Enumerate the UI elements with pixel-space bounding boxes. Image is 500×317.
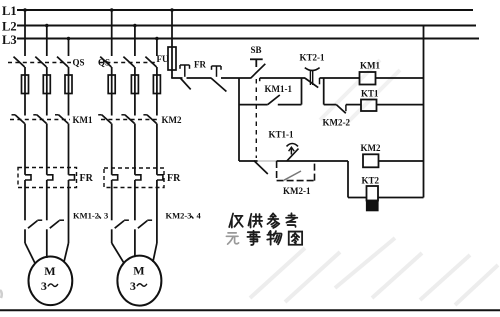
wire KT2 row left: [348, 197, 367, 199]
svg-text:FR: FR: [80, 173, 94, 184]
wire branch1 phase 1 to motor: [24, 229, 26, 243]
switch QS blade phase 1 (branch1): [14, 57, 25, 67]
wire L3 bus: [17, 38, 479, 40]
thermal relay FR box (branch1): [18, 168, 77, 188]
wire branch2 phase 1 to motor: [111, 229, 113, 243]
time contact KT1-1 delay arc+arrow: [287, 144, 299, 147]
contactor main contact phase 1 (KM1): [12, 114, 16, 116]
thermal relay FR heater phase 1 (branch1): [25, 175, 31, 180]
wire KM1-1 row right: [278, 104, 302, 106]
svg-text:L2: L2: [2, 20, 17, 34]
wire branch2 phase 1 to FR: [111, 124, 113, 175]
fuse FU phase 1 (branch1): [22, 75, 29, 94]
pushbutton SB actuator: [250, 58, 263, 60]
wire KT1 coil to rail: [377, 104, 424, 106]
contactor main contact phase 3 (KM2): [143, 114, 147, 116]
wire branch2 phase 2 to FR: [134, 124, 136, 175]
coil KT2 delay block: [367, 201, 379, 211]
fuse FU phase 3 (branch2): [153, 75, 160, 94]
wire main row segment 1: [171, 77, 182, 79]
bottom border line: [0, 309, 500, 311]
wire KM1 coil to rail: [376, 77, 424, 79]
time contact KT2-1 fixed tick: [319, 78, 321, 84]
wire branch1 phase 2 to motor: [46, 229, 48, 243]
thermal relay FR heater phase 2 (branch1): [47, 175, 53, 180]
svg-text:KM2-2: KM2-2: [323, 118, 351, 128]
contact KM2-2 fixed tick: [345, 105, 347, 112]
wire branch1 phase 2 below FR: [46, 180, 48, 220]
wire L1 bus: [17, 9, 473, 11]
svg-text:SB: SB: [251, 45, 262, 55]
fuse FU phase 3 (branch1): [65, 75, 72, 94]
contact KM2-1 bypass left leg: [276, 161, 278, 181]
switch QS blade phase 3 (branch1): [57, 57, 68, 67]
svg-text:KT1-1: KT1-1: [269, 130, 295, 140]
junction branch2 phase 1 tap: [110, 8, 114, 12]
svg-text:L3: L3: [2, 33, 17, 47]
svg-text:KM1-1: KM1-1: [265, 84, 293, 94]
junction branch1 phase 1 tap: [23, 8, 27, 12]
switch QS linkage (branch2): [99, 62, 158, 64]
wire main row segment 2: [187, 77, 212, 79]
wire branch1 phase 1 drop: [24, 10, 26, 56]
coil KT1: [361, 100, 377, 112]
wire branch2 motor leads: [112, 243, 125, 263]
contact KM1-1 blade (NO): [268, 95, 280, 105]
wire branch2 phase 2 to motor: [134, 229, 136, 243]
switch QS blade phase 2 (branch1): [35, 57, 46, 67]
wire branch1 phase 1 to fuse: [24, 67, 26, 116]
wire row3 faint gap segment: [258, 160, 277, 162]
wire branch2 phase 3 to fuse: [156, 67, 158, 116]
wire KM1-1 row left: [239, 104, 268, 106]
wire main row segment 4: [260, 77, 305, 79]
wire branch1 phase 1 to FR: [24, 124, 26, 175]
wire L2 bus: [17, 25, 476, 27]
wire branch1 phase 1 below FR: [24, 180, 26, 220]
coil KM1: [360, 72, 376, 85]
wire branch1 phase 3 to fuse: [68, 67, 70, 116]
svg-text:FU: FU: [157, 54, 169, 64]
contact KM2-2 blade (NC): [336, 105, 346, 114]
fuse FU phase 1 (branch2): [108, 75, 115, 94]
wire branch1 phase 3 below FR: [68, 180, 70, 243]
contact KM2-3 4 phase 2: [138, 221, 147, 229]
thermal contact FR2 (NC): [212, 65, 222, 67]
annotation text line 2 (wu shi wu tu): [226, 233, 238, 244]
small edge mark: [0, 290, 2, 298]
coil KM2: [363, 154, 379, 167]
fuse FU phase 2 (branch2): [131, 75, 138, 94]
contactor main contact phase 1 (KM2): [98, 114, 102, 116]
watermark (faint): [250, 60, 498, 305]
wire row3 main: [277, 160, 348, 162]
motor M (branch1): [29, 257, 73, 306]
svg-text:KM2-3: KM2-3: [166, 211, 192, 221]
wire branch2 phase 2 to fuse: [134, 67, 136, 116]
svg-text:KM2-1: KM2-1: [283, 186, 311, 196]
contact KM2-3 4 phase 1: [115, 221, 124, 229]
svg-text:KM1: KM1: [73, 115, 93, 125]
wire right rail: [423, 26, 425, 198]
time contact KT2-1 blade: [305, 78, 318, 88]
contact KM1-2 3 phase 1: [28, 221, 37, 229]
pushbutton SB start blade (NO): [254, 161, 268, 174]
contactor KM1 linkage: [10, 119, 70, 121]
thermal relay FR heater phase 1 (branch2): [112, 175, 118, 180]
coil KT2 (delay type): [367, 186, 379, 201]
wire branch2 phase 3 below FR: [156, 180, 158, 243]
fuse FU control: [168, 47, 176, 70]
fuse FU phase 2 (branch1): [43, 75, 50, 94]
thermal relay FR box (branch2): [104, 168, 164, 188]
svg-text:FR: FR: [167, 173, 181, 184]
svg-text:M: M: [133, 264, 144, 278]
junction control FU tap on L1: [170, 8, 174, 12]
wire branch2 phase 1 to fuse: [111, 67, 113, 116]
contactor main contact phase 3 (KM1): [55, 114, 59, 116]
pushbutton SB linkage (dashed): [255, 79, 257, 158]
switch QS blade phase 1 (branch2): [100, 57, 111, 67]
junction branch1 phase 2 tap: [45, 24, 49, 28]
wire branch2 phase 2 drop: [134, 26, 136, 57]
wire branch1 phase 3 to FR: [68, 124, 70, 175]
svg-text:KM1-2: KM1-2: [73, 211, 99, 221]
wire KT1 row mid: [346, 104, 361, 106]
wire KM2 coil to rail: [379, 160, 424, 162]
wire branch1 phase 2 to fuse: [46, 67, 48, 116]
wire branch2 phase 2 below FR: [134, 180, 136, 220]
motor M (branch2): [117, 256, 161, 306]
svg-text:KM2: KM2: [162, 115, 182, 125]
svg-text:3: 3: [41, 279, 47, 293]
junction branch2 phase 3 tap: [155, 37, 159, 41]
svg-text:KT2-1: KT2-1: [300, 53, 326, 63]
wire branch1 phase 2 drop: [46, 26, 48, 57]
svg-text:FR: FR: [194, 60, 206, 70]
time contact KT1-1 blade: [287, 149, 299, 161]
svg-text:M: M: [44, 264, 55, 278]
wire main row segment 3: [221, 77, 251, 79]
svg-text:3: 3: [104, 211, 108, 221]
contact KM1-2 3 phase 2: [50, 221, 59, 229]
wire row3 left: [239, 160, 258, 162]
wire KT1 row left: [324, 104, 337, 106]
svg-text:KT1: KT1: [361, 89, 379, 99]
thermal relay FR heater phase 3 (branch2): [157, 175, 163, 180]
svg-text:QS: QS: [73, 58, 85, 68]
thermal contact FR1 (NC): [180, 64, 190, 66]
wire KT2 row right: [378, 197, 424, 199]
wire branch2 phase 1 below FR: [111, 180, 113, 220]
contactor main contact phase 2 (KM2): [121, 114, 125, 116]
switch QS blade phase 2 (branch2): [123, 57, 134, 67]
node C drop to KT1 row: [323, 78, 325, 105]
wire branch2 phase 3 to FR: [156, 124, 158, 175]
contact KM2-1 blade (NO): [284, 171, 301, 180]
wire branch2 phase 1 drop: [111, 10, 113, 56]
wire control FU drop: [171, 10, 173, 47]
svg-text:KM2: KM2: [361, 143, 381, 153]
svg-text:KT2: KT2: [362, 176, 380, 186]
svg-text:L1: L1: [2, 4, 17, 18]
wire KT2 tap drop: [347, 161, 349, 198]
annotation text line 1 (ji gong can kao): [229, 214, 243, 228]
contactor main contact phase 2 (KM1): [33, 114, 37, 116]
time contact KT2-1 delay cup: [305, 68, 320, 71]
wire branch2 phase 3 drop: [156, 39, 158, 57]
wire branch1 phase 3 drop: [68, 39, 70, 57]
svg-text:QS: QS: [98, 58, 110, 68]
wire branch1 motor leads: [25, 243, 35, 264]
contact KM2-1 bypass right leg: [314, 161, 316, 181]
contact KM2-1 bypass bottom: [277, 180, 315, 182]
thermal relay FR heater phase 2 (branch2): [135, 175, 141, 180]
svg-text:3: 3: [130, 279, 136, 293]
wire branch1 phase 2 to FR: [46, 124, 48, 175]
pushbutton SB fixed contact tick: [259, 78, 261, 81]
wire main row segment 5: [320, 77, 360, 79]
node A / left rail: [238, 78, 240, 161]
thermal relay FR heater phase 3 (branch1): [69, 175, 75, 180]
junction branch2 phase 2 tap: [133, 24, 137, 28]
svg-text:KM1: KM1: [360, 61, 380, 71]
pushbutton SB blade (NC): [251, 64, 266, 79]
switch QS blade phase 3 (branch2): [145, 57, 156, 67]
switch QS linkage (branch1): [8, 62, 71, 64]
node B drop to self-hold row: [301, 78, 303, 105]
junction branch1 phase 3 tap: [67, 37, 71, 41]
contactor KM2 linkage: [101, 119, 157, 121]
